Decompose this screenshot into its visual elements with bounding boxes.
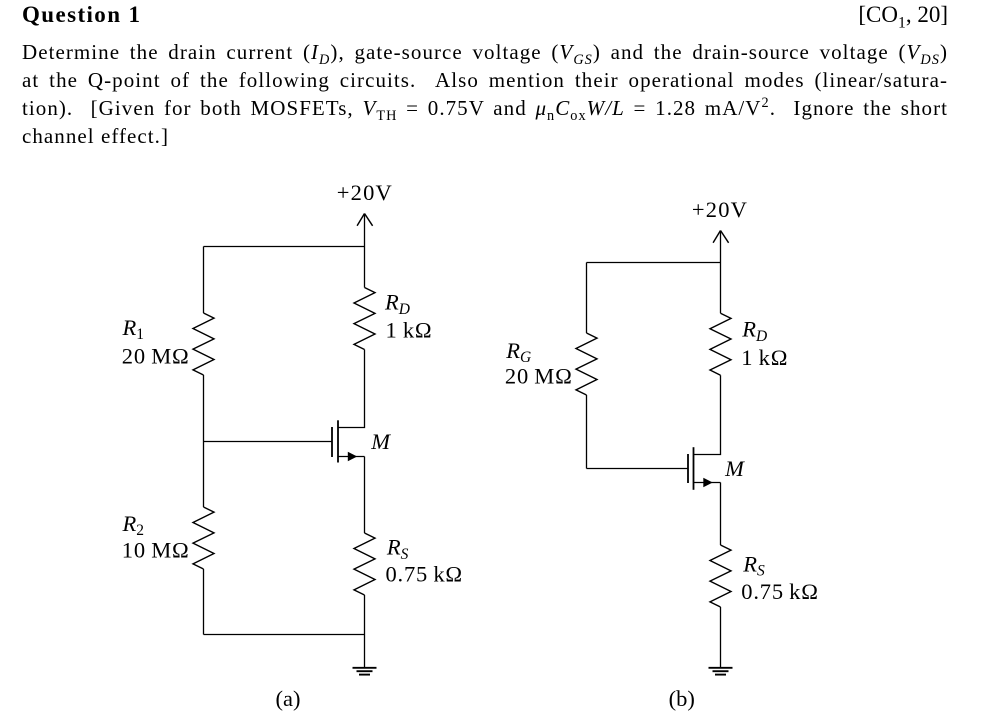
wire source (b) with arrow [694, 482, 721, 484]
heading: Question 1 [22, 1, 141, 29]
svg-text:20 MΩ: 20 MΩ [505, 363, 573, 388]
wire gate (b) [587, 468, 689, 470]
wire left-rail middle (a) [203, 375, 205, 507]
svg-text:M: M [370, 429, 391, 454]
wire bottom (a) [204, 634, 365, 636]
svg-text:RG: RG [505, 338, 531, 366]
wire to ground (b) [720, 607, 722, 668]
svg-text:M: M [724, 456, 745, 481]
svg-text:+20V: +20V [692, 197, 748, 222]
svg-text:R2: R2 [122, 511, 145, 539]
svg-text:RS: RS [386, 535, 409, 563]
paragraph line 2 [22, 66, 948, 94]
wire top (b) [587, 262, 721, 264]
wire top (a) [204, 246, 365, 248]
svg-text:0.75 kΩ: 0.75 kΩ [741, 579, 818, 604]
resistor RG [576, 333, 597, 395]
svg-text:RD: RD [741, 317, 767, 345]
paragraph line 3 [22, 94, 948, 122]
paragraph line 1 [22, 38, 948, 66]
transistor M (a) nmos [332, 420, 338, 462]
ground (b) [709, 668, 733, 675]
svg-text:10 MΩ: 10 MΩ [122, 537, 190, 562]
wire gate (a) [204, 441, 333, 443]
svg-text:RS: RS [742, 551, 765, 579]
svg-text:0.75 kΩ: 0.75 kΩ [386, 561, 463, 586]
resistor RD (b) [710, 313, 731, 375]
wire left-rail upper (b) [586, 263, 588, 334]
wire drain (a) [338, 350, 365, 428]
wire to ground (a) [364, 595, 366, 668]
svg-text:(b): (b) [669, 686, 695, 711]
node VDD(a) supply arrow [357, 214, 373, 247]
wire left-rail lower (a) [203, 569, 205, 635]
svg-text:RD: RD [384, 290, 410, 318]
paragraph line 4 [22, 122, 948, 150]
svg-text:R1: R1 [122, 315, 145, 343]
svg-text:1 kΩ: 1 kΩ [386, 318, 433, 343]
resistor R1 [193, 313, 214, 375]
svg-text:20 MΩ: 20 MΩ [122, 343, 190, 368]
transistor M (b) nmos [688, 447, 694, 490]
resistor RS (a) [354, 533, 375, 595]
ground (a) [353, 668, 377, 675]
svg-text:+20V: +20V [337, 180, 393, 205]
wire source-rail (a) [364, 457, 366, 534]
svg-text:(a): (a) [276, 686, 301, 711]
node VDD(b) supply arrow [713, 231, 729, 263]
wire left-rail lower (b) [586, 395, 588, 469]
resistor R2 [193, 507, 214, 569]
heading right: [CO1, 20] [858, 0, 948, 29]
wire source-rail (b) [720, 483, 722, 546]
svg-text:1 kΩ: 1 kΩ [741, 345, 788, 370]
wire right-rail upper (b) [720, 263, 722, 314]
resistor RD (a) [354, 288, 375, 350]
wire right-rail upper (a) [364, 247, 366, 288]
resistor RS (b) [710, 545, 731, 607]
wire left-rail upper (a) [203, 247, 205, 314]
wire drain (b) [694, 375, 721, 454]
wire source (a) with arrow [338, 456, 365, 458]
